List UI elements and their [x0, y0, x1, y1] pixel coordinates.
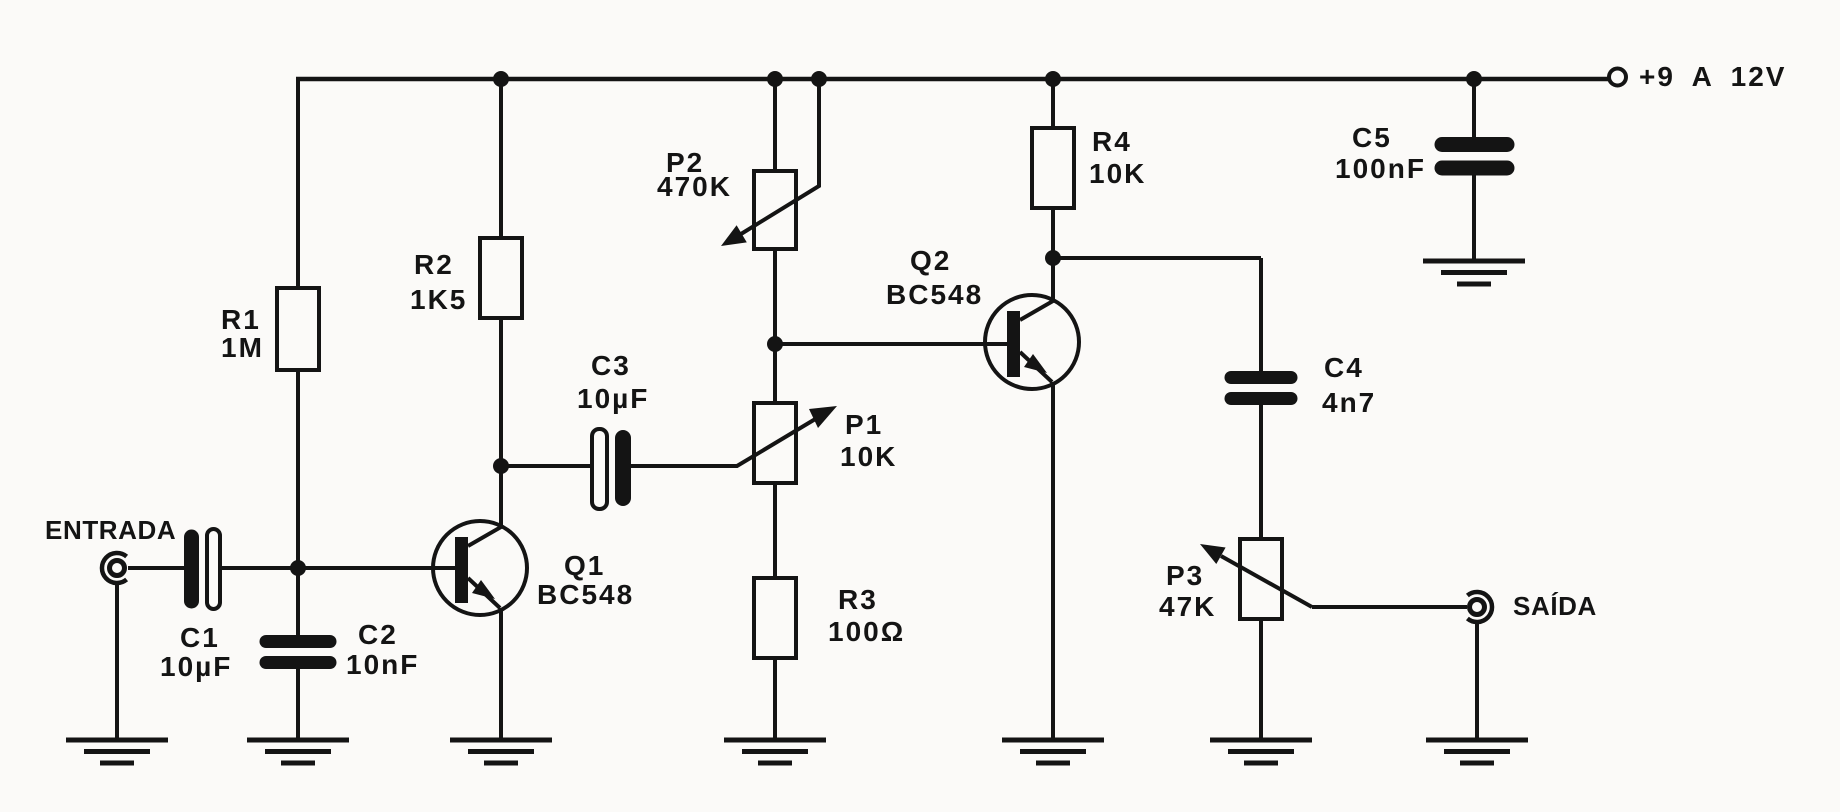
- svg-text:47K: 47K: [1159, 591, 1216, 622]
- svg-text:100Ω: 100Ω: [828, 616, 905, 647]
- svg-text:4n7: 4n7: [1322, 387, 1376, 418]
- svg-text:10µF: 10µF: [160, 651, 232, 682]
- svg-text:1M: 1M: [221, 332, 264, 363]
- svg-text:10µF: 10µF: [577, 383, 649, 414]
- svg-text:C1: C1: [180, 622, 220, 653]
- svg-text:C2: C2: [358, 619, 398, 650]
- svg-text:C5: C5: [1352, 122, 1392, 153]
- svg-text:470K: 470K: [657, 171, 732, 202]
- svg-text:R3: R3: [838, 584, 878, 615]
- svg-text:+9 A 12V: +9 A 12V: [1639, 61, 1786, 92]
- svg-text:R4: R4: [1092, 126, 1132, 157]
- svg-text:100nF: 100nF: [1335, 153, 1426, 184]
- svg-text:10K: 10K: [1089, 158, 1146, 189]
- svg-text:Q1: Q1: [564, 550, 605, 581]
- svg-text:R2: R2: [414, 249, 454, 280]
- svg-text:1K5: 1K5: [410, 284, 467, 315]
- svg-text:C3: C3: [591, 350, 631, 381]
- svg-text:SAÍDA: SAÍDA: [1513, 591, 1597, 621]
- svg-text:BC548: BC548: [886, 279, 983, 310]
- svg-text:P1: P1: [845, 409, 883, 440]
- svg-text:10nF: 10nF: [346, 649, 419, 680]
- svg-text:R1: R1: [221, 304, 261, 335]
- svg-text:C4: C4: [1324, 352, 1364, 383]
- svg-text:ENTRADA: ENTRADA: [45, 515, 176, 545]
- svg-text:P3: P3: [1166, 560, 1204, 591]
- svg-text:10K: 10K: [840, 441, 897, 472]
- svg-text:BC548: BC548: [537, 579, 634, 610]
- svg-text:Q2: Q2: [910, 245, 951, 276]
